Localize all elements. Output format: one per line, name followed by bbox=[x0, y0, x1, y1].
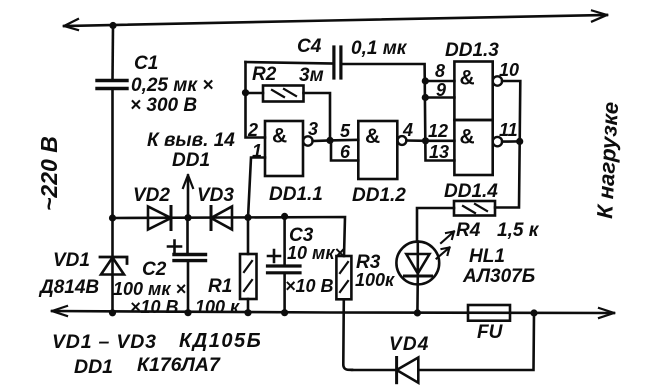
node diode row / C3 bbox=[281, 213, 288, 220]
LED HL1 bbox=[396, 242, 439, 313]
resistor R4 bbox=[417, 201, 495, 242]
resistor R2 bbox=[246, 86, 331, 141]
label C2 bbox=[113, 259, 186, 317]
label VD1 bbox=[38, 250, 99, 298]
label R2 bbox=[252, 64, 324, 86]
wire arrow to pin 14 bbox=[183, 175, 193, 218]
diode VD4 bbox=[352, 358, 418, 383]
zener VD1 bbox=[100, 257, 127, 275]
node LED bottom bbox=[414, 309, 421, 316]
resistor R1 bbox=[240, 218, 257, 313]
capacitor C1 bbox=[97, 81, 127, 89]
svg-text:3: 3 bbox=[308, 119, 318, 139]
node R2 right / output3 bbox=[326, 137, 333, 144]
wire DD1.2 out to DD1.3/4 inputs bbox=[406, 139, 454, 142]
svg-text:~220 В: ~220 В bbox=[36, 136, 62, 211]
wire diode row bbox=[113, 217, 346, 256]
label C3 bbox=[285, 225, 345, 296]
svg-text:VD3: VD3 bbox=[197, 185, 234, 206]
wire pin 6 loop bbox=[331, 140, 358, 160]
label C1 value bbox=[130, 53, 213, 116]
svg-text:DD1.4: DD1.4 bbox=[444, 181, 498, 202]
label parts list line 1 bbox=[52, 330, 262, 353]
svg-text:0,1 мк: 0,1 мк bbox=[351, 38, 408, 59]
svg-text:DD1: DD1 bbox=[74, 356, 113, 378]
svg-text:C2: C2 bbox=[142, 259, 167, 280]
node R1 bottom bbox=[244, 309, 251, 316]
svg-text:&: & bbox=[365, 125, 380, 148]
wire top rail bbox=[64, 11, 607, 31]
capacitor C2 bbox=[174, 218, 206, 313]
wire VD4 loop bbox=[418, 313, 534, 370]
wire bottom rail bbox=[52, 306, 614, 318]
svg-text:C1: C1 bbox=[134, 53, 158, 74]
gate DD1.3 bbox=[454, 62, 502, 121]
wire left rail lower bbox=[111, 218, 114, 313]
svg-text:100 мк ×: 100 мк × bbox=[113, 279, 186, 299]
svg-text:VD1: VD1 bbox=[53, 250, 90, 271]
svg-text:АЛ307Б: АЛ307Б bbox=[462, 266, 535, 287]
diode VD2 bbox=[148, 207, 171, 230]
node left rail / bottom rail bbox=[109, 309, 116, 316]
node pin8 bbox=[422, 77, 429, 84]
svg-text:FU: FU bbox=[477, 322, 504, 343]
svg-text:КД105Б: КД105Б bbox=[179, 330, 262, 352]
svg-text:VD2: VD2 bbox=[133, 185, 170, 206]
wire out10 to out11 bbox=[502, 81, 520, 141]
svg-text:11: 11 bbox=[499, 120, 518, 140]
svg-text:×10 В: ×10 В bbox=[285, 276, 334, 296]
svg-text:&: & bbox=[460, 126, 475, 149]
svg-text:8: 8 bbox=[435, 61, 445, 81]
svg-text:×10 В: ×10 В bbox=[130, 297, 179, 317]
svg-text:12: 12 bbox=[428, 121, 448, 141]
node out10/out11 bbox=[516, 138, 523, 145]
node R2 tap bbox=[242, 89, 249, 96]
wire DD1.1 out to DD1.2 in bbox=[313, 140, 359, 141]
wire top oscillator row bbox=[246, 62, 334, 64]
node VD2-VD3 cathodes bbox=[184, 214, 191, 221]
svg-text:HL1: HL1 bbox=[469, 246, 505, 267]
capacitor C4 bbox=[334, 47, 341, 78]
svg-text:VD4: VD4 bbox=[389, 334, 430, 355]
wire C4 to DD1.3 inputs bbox=[341, 64, 455, 161]
svg-text:× 300 В: × 300 В bbox=[130, 95, 197, 116]
diode VD3 bbox=[211, 207, 232, 230]
wire left rail mid bbox=[111, 89, 114, 219]
svg-text:DD1.1: DD1.1 bbox=[269, 184, 323, 205]
svg-text:100к: 100к bbox=[355, 270, 395, 290]
svg-text:R2: R2 bbox=[252, 64, 277, 85]
capacitor C3 bbox=[268, 216, 301, 313]
label R1 bbox=[195, 276, 240, 317]
wire pin1 to diode row bbox=[248, 158, 265, 219]
svg-text:C4: C4 bbox=[297, 36, 322, 57]
svg-text:DD1.3: DD1.3 bbox=[445, 40, 499, 61]
node top-left junction bbox=[109, 22, 116, 29]
label HL1 bbox=[462, 246, 535, 287]
label C3 plus bbox=[268, 250, 280, 262]
svg-text:К выв. 14: К выв. 14 bbox=[147, 130, 235, 151]
LED arrows bbox=[437, 232, 455, 259]
svg-text:3м: 3м bbox=[299, 65, 324, 86]
gate DD1.1 bbox=[265, 121, 313, 176]
label K vyv 14 DD1 bbox=[147, 130, 235, 171]
wire R2/C4 node vertical bbox=[246, 62, 266, 138]
svg-text:5: 5 bbox=[340, 121, 351, 141]
svg-text:13: 13 bbox=[429, 142, 449, 162]
svg-text:0,25 мк ×: 0,25 мк × bbox=[131, 75, 213, 96]
label C2 plus bbox=[168, 241, 181, 253]
svg-text:10: 10 bbox=[499, 60, 519, 80]
node C3 bottom bbox=[281, 309, 288, 316]
svg-text:2: 2 bbox=[247, 120, 258, 140]
node left rail / diode row bbox=[109, 214, 116, 221]
node diode row / R1 / pin1 bbox=[244, 214, 251, 221]
wire to R4 bbox=[495, 141, 520, 207]
gate DD1.4 bbox=[454, 120, 502, 175]
gate DD1.2 bbox=[358, 121, 406, 179]
wire pin 8 stub bbox=[425, 80, 454, 83]
label R3 bbox=[355, 252, 395, 290]
svg-text:К176ЛА7: К176ЛА7 bbox=[137, 354, 221, 376]
svg-text:DD1.2: DD1.2 bbox=[352, 185, 406, 206]
svg-text:R4: R4 bbox=[456, 220, 481, 241]
svg-text:VD1 – VD3: VD1 – VD3 bbox=[52, 331, 157, 353]
wire pin 9 stub bbox=[425, 96, 454, 99]
svg-text:DD1: DD1 bbox=[172, 150, 210, 171]
svg-text:R1: R1 bbox=[208, 276, 232, 297]
wire left rail upper bbox=[111, 26, 114, 81]
label R4 bbox=[456, 220, 540, 241]
svg-text:Д814В: Д814В bbox=[38, 277, 99, 298]
label C4 bbox=[297, 36, 408, 59]
resistor R3 bbox=[336, 256, 352, 370]
node pin9 bbox=[422, 94, 429, 101]
svg-text:1,5 к: 1,5 к bbox=[497, 220, 540, 241]
label parts list line 2 bbox=[74, 354, 221, 378]
svg-text:6: 6 bbox=[340, 142, 351, 162]
svg-text:100 к: 100 к bbox=[195, 297, 240, 317]
node pin12 bbox=[422, 137, 429, 144]
node C2 bottom bbox=[184, 309, 191, 316]
svg-text:&: & bbox=[460, 67, 475, 90]
node after fuse bbox=[530, 309, 537, 316]
fuse FU bbox=[468, 305, 510, 321]
svg-text:4: 4 bbox=[402, 120, 413, 140]
wire out11 bbox=[502, 140, 520, 143]
svg-text:&: & bbox=[272, 125, 287, 148]
